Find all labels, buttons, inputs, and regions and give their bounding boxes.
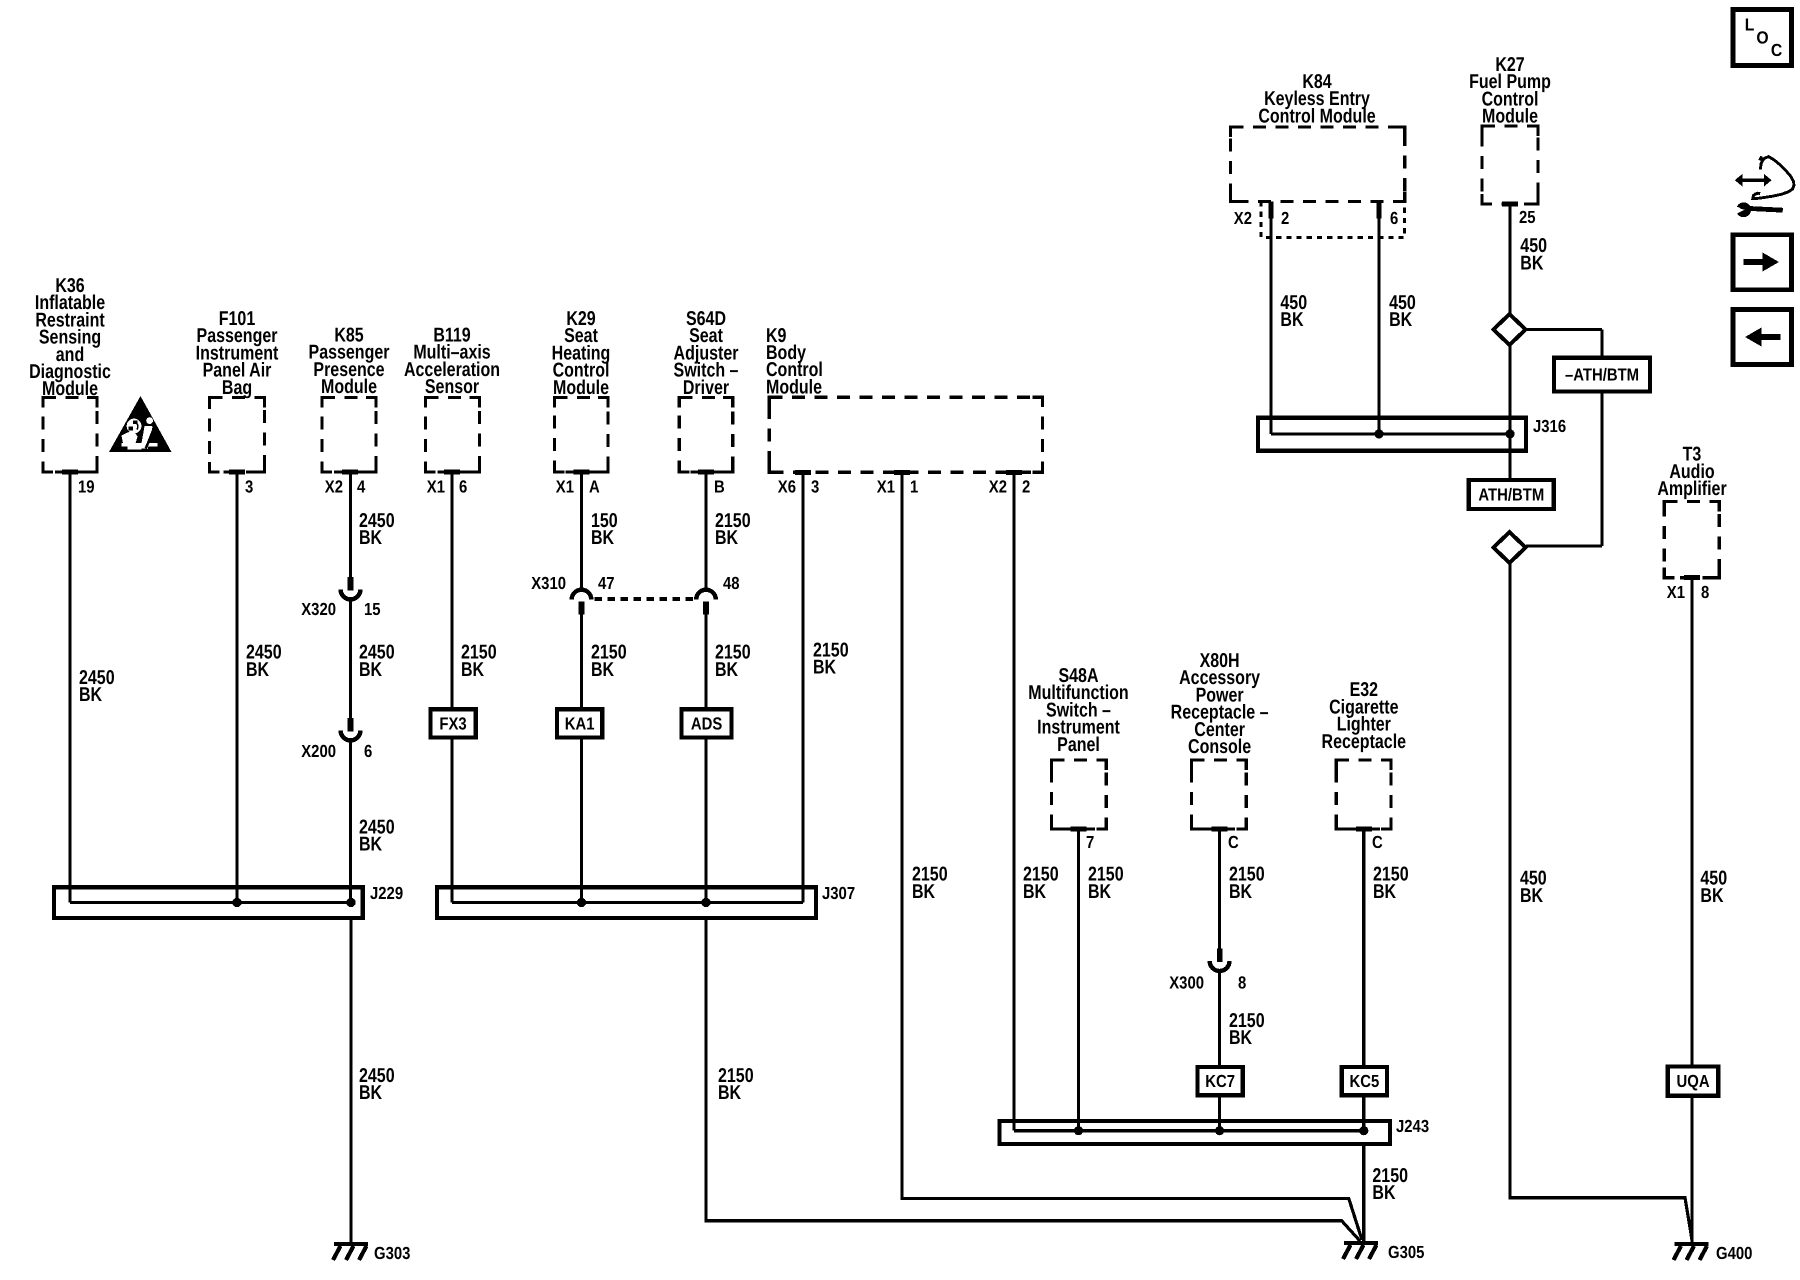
inline connector X300 pin 8 [1210,949,1230,971]
svg-text:47: 47 [598,573,615,593]
wire J229 to G303 [349,918,352,1243]
legend back arrow box icon [1733,310,1792,365]
svg-text:X300: X300 [1169,973,1204,993]
svg-text:O: O [1756,28,1768,48]
module B119 Multi-axis Acceleration Sensor label [404,325,500,399]
svg-text:J307: J307 [822,883,855,903]
wire J243 to G305 [1362,1144,1365,1242]
svg-text:BK: BK [1229,1027,1253,1049]
wire J307 to G305 (long bottom run) [706,918,1360,1241]
svg-text:BK: BK [1700,885,1724,907]
module F101 Passenger Instrument Panel Air Bag label [196,308,279,399]
wire lower diamond to G400 [1510,563,1692,1240]
wire label 2150 BK (S64D lower) [715,642,751,681]
svg-text:G400: G400 [1716,1243,1753,1263]
svg-text:BK: BK [1389,309,1413,331]
svg-text:Module: Module [1482,106,1538,128]
svg-text:BK: BK [1372,1182,1396,1204]
wire K84 pin6 to J316 [1377,201,1380,434]
svg-text:BK: BK [715,659,739,681]
svg-text:BK: BK [359,659,383,681]
wire S64D pinB to X310 pin48 [704,474,707,590]
airbag warning triangle icon [109,396,172,452]
wire label 2150 BK (K9 X2) [1023,864,1059,903]
module S64D dashed box [679,398,733,475]
svg-text:6: 6 [459,477,468,497]
module K85 dashed box [322,398,376,475]
svg-text:15: 15 [364,599,381,619]
harness code box ADS [682,709,732,737]
wire K9 X6-3 to J307 [801,474,804,903]
harness code box FX3 [430,709,475,737]
module X80H dashed box [1192,760,1247,832]
wire label 2150 BK (X80H upper) [1229,864,1265,903]
wire label 2150 BK (to G305) [1372,1165,1408,1204]
wire F101 pin3 to J229 [235,474,238,903]
svg-text:BK: BK [912,881,936,903]
svg-text:BK: BK [1023,881,1047,903]
option code box UQA [1668,1067,1719,1096]
wire label 450 BK (T3) [1700,868,1727,907]
svg-text:Console: Console [1188,736,1251,758]
svg-text:Receptacle: Receptacle [1322,731,1407,753]
svg-text:KA1: KA1 [565,713,595,733]
dashed jumper between X310 pin47 and pin48 [595,597,694,601]
module K36 Inflatable Restraint Sensing and Diagnostic Module label [29,275,111,400]
svg-text:8: 8 [1701,582,1710,602]
module E32 Cigarette Lighter Receptacle label [1322,679,1407,753]
wire K9 X1-1 to G305 [902,474,1362,1240]
wire K29 pinA to X310 [580,474,583,590]
svg-text:Module: Module [766,376,822,398]
svg-text:19: 19 [78,477,95,497]
wire UQA to G400 [1690,1096,1693,1243]
wire label 2150 BK (B119) [461,642,497,681]
svg-text:4: 4 [357,477,366,497]
module K9 Body Control Module label [766,325,823,399]
wire B119 pin6 to FX3 [450,474,453,709]
module S64D Seat Adjuster Switch - Driver label [674,308,739,399]
module K9 dashed box [769,397,1042,475]
wire X300 to KC7 [1218,972,1221,1067]
svg-text:48: 48 [723,573,740,593]
wire T3 pin8 to UQA [1690,578,1693,1067]
svg-text:KC5: KC5 [1349,1071,1379,1091]
wire ADS to J307 [704,738,707,903]
legend forward arrow box icon [1733,235,1792,290]
svg-text:Driver: Driver [683,377,729,399]
svg-text:6: 6 [1390,208,1399,228]
wire label 2150 BK (S48A) [1088,864,1124,903]
wire label 2150 BK (K9 X6) [813,639,849,678]
wire K85 pin4 to X320 [349,474,352,577]
svg-text:BK: BK [1520,885,1544,907]
inline connector X310 pin 47 [572,590,592,615]
module K84 dashed box [1231,127,1405,201]
svg-text:BK: BK [591,659,615,681]
svg-text:BK: BK [246,659,270,681]
svg-text:J316: J316 [1533,416,1566,436]
connector X2 sub-box of K84 [1261,201,1405,237]
svg-text:6: 6 [364,741,373,761]
wire FX3 to J307 [450,738,453,903]
inline connector X200 pin 6 [341,718,361,740]
svg-text:X2: X2 [1234,208,1252,228]
module B119 dashed box [426,398,480,475]
wire label 150 BK (K29) [591,510,618,549]
wire KC5 to J243 [1362,1095,1365,1131]
legend car-side icon with double arrow and wrench [1729,156,1794,217]
inline connector X310 pin 48 [696,590,716,615]
svg-text:BK: BK [1280,309,1304,331]
splice diamond lower (fuel pump line) [1494,532,1526,563]
harness code box KC5 [1342,1067,1387,1095]
svg-text:X2: X2 [325,477,343,497]
wire X310 pin48 to ADS [704,614,707,709]
wire label 2450 BK (K85 upper) [359,510,395,549]
pin tab K84 pin6 [1376,201,1381,218]
wire label 2150 BK (X300 lower) [1229,1010,1265,1049]
wire label 450 BK (K84 pin2) [1280,292,1307,331]
module F101 dashed box [210,398,265,475]
svg-text:X310: X310 [531,573,566,593]
svg-text:2: 2 [1022,477,1031,497]
wire label 450 BK (fuel pump ground run) [1520,868,1547,907]
svg-text:1: 1 [910,477,919,497]
svg-text:X1: X1 [877,477,895,497]
wire label 450 BK (K84 pin6) [1389,292,1416,331]
svg-text:FX3: FX3 [439,713,467,733]
wire label 2150 BK (below J307) [718,1065,754,1104]
svg-text:3: 3 [245,477,254,497]
wire label 2150 BK (S64D upper) [715,510,751,549]
option code box -ATH/BTM [1554,358,1650,392]
svg-text:Panel: Panel [1057,734,1100,756]
splice pack J307 [437,883,855,918]
wire diamond to -ATH/BTM branch [1526,328,1603,331]
wire label 2150 BK (K9 X1) [912,864,948,903]
svg-text:Amplifier: Amplifier [1657,478,1727,500]
wire label 2450 BK (K85 mid) [359,642,395,681]
wire K36 pin19 to J229 [68,474,71,903]
wire -ATH/BTM to lower diamond [1600,392,1603,546]
legend LOC box icon [1733,10,1792,66]
svg-text:X6: X6 [778,477,796,497]
svg-text:B: B [714,477,725,497]
svg-text:X1: X1 [1667,582,1685,602]
svg-text:Control Module: Control Module [1258,105,1375,127]
module X80H Accessory Power Receptacle - Center Console label [1171,650,1269,758]
svg-text:BK: BK [591,527,615,549]
svg-text:X1: X1 [556,477,574,497]
svg-text:Module: Module [553,377,609,399]
svg-text:BK: BK [79,684,103,706]
splice pack J316 [1258,416,1566,451]
svg-text:3: 3 [811,477,820,497]
svg-text:C: C [1372,832,1383,852]
svg-text:25: 25 [1519,207,1536,227]
svg-text:UQA: UQA [1677,1071,1710,1091]
svg-text:BK: BK [461,659,485,681]
wire label 450 BK (K27) [1520,235,1547,274]
svg-text:Sensor: Sensor [425,376,479,398]
module S48A Multifunction Switch - Instrument Panel label [1028,665,1128,756]
svg-text:C: C [1771,40,1783,60]
svg-text:BK: BK [718,1082,742,1104]
svg-text:BK: BK [1520,252,1544,274]
wire label 2450 BK (to G303) [359,1065,395,1104]
wire E32 pinC to KC5 [1362,831,1365,1067]
wire label 2150 BK (K29 lower) [591,642,627,681]
wire label 2450 BK (K85 lower) [359,817,395,856]
ground G400 [1674,1243,1753,1263]
svg-text:ADS: ADS [691,713,722,733]
svg-text:2: 2 [1281,208,1290,228]
wire branch to lower diamond right tip [1526,544,1602,547]
wire upper diamond through J316 to ATH/BTM [1508,345,1511,480]
wire X80H pinC to X300 [1218,831,1221,949]
svg-text:X320: X320 [301,599,336,619]
svg-text:A: A [589,477,600,497]
wire label 2450 BK (K36) [79,667,115,706]
ground G303 [333,1243,411,1263]
module T3 dashed box [1664,501,1719,580]
svg-text:J243: J243 [1396,1116,1429,1136]
wire label 2450 BK (F101) [246,642,282,681]
harness code box KA1 [557,709,602,737]
svg-text:X1: X1 [427,477,445,497]
wire KA1 to J307 [580,738,583,903]
module T3 Audio Amplifier label [1657,444,1727,500]
svg-text:BK: BK [715,527,739,549]
ground G305 [1343,1242,1425,1262]
module K27 dashed box [1482,126,1538,207]
module K29 Seat Heating Control Module label [552,308,611,399]
inline connector X320 pin 15 [341,577,361,599]
splice pack J243 [1000,1116,1430,1144]
svg-text:BK: BK [1229,881,1253,903]
wire K9 X2-2 to J243 [1012,474,1015,1131]
module K85 Passenger Presence Module label [309,325,390,399]
wire X320 to X200 [349,601,352,719]
wire X310 to KA1 [580,614,583,709]
svg-text:BK: BK [813,657,837,679]
harness code box KC7 [1198,1067,1243,1095]
svg-text:Module: Module [321,376,377,398]
svg-text:8: 8 [1238,973,1247,993]
wire label 2150 BK (E32) [1373,864,1409,903]
pin tab K84 pin2 [1268,201,1273,218]
svg-text:7: 7 [1086,832,1094,852]
svg-text:BK: BK [359,527,383,549]
svg-text:Bag: Bag [222,377,252,399]
module S48A dashed box [1052,760,1107,832]
wire K84 pin2 to J316 [1269,201,1272,434]
svg-text:BK: BK [359,834,383,856]
splice pack J229 [54,883,403,918]
module E32 dashed box [1336,760,1391,832]
module K36 dashed box [43,398,97,475]
wire X200 to J229 [349,742,352,903]
svg-text:C: C [1228,832,1239,852]
wire K27 pin25 to diamond [1508,204,1511,314]
svg-text:J229: J229 [370,883,403,903]
svg-text:BK: BK [1088,881,1112,903]
svg-text:BK: BK [1373,881,1397,903]
svg-text:KC7: KC7 [1205,1071,1235,1091]
module K84 Keyless Entry Control Module label [1258,71,1375,127]
svg-text:BK: BK [359,1082,383,1104]
splice diamond upper (fuel pump line) [1494,314,1526,345]
svg-text:G305: G305 [1388,1242,1425,1262]
wire branch down to -ATH/BTM [1600,330,1603,358]
svg-text:–ATH/BTM: –ATH/BTM [1565,365,1639,385]
svg-text:X2: X2 [989,477,1007,497]
wire KC7 to J243 [1218,1095,1221,1131]
svg-text:L: L [1745,15,1755,35]
svg-text:G303: G303 [374,1243,411,1263]
svg-text:ATH/BTM: ATH/BTM [1478,485,1544,505]
svg-text:X200: X200 [301,741,336,761]
module K29 dashed box [555,398,609,475]
module K27 Fuel Pump Control Module label [1469,54,1551,128]
option code box ATH/BTM [1469,480,1554,509]
wire S48A pin7 to J243 [1077,831,1080,1131]
